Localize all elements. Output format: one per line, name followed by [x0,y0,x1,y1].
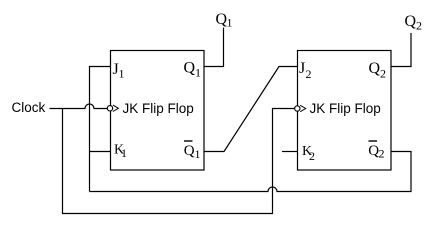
wire K2 stub [282,151,298,153]
svg-text:2: 2 [416,19,422,33]
svg-text:1: 1 [227,16,233,30]
wire Q1-bar to J2 (diagonal) [204,67,298,152]
svg-text:1: 1 [195,147,201,161]
svg-text:2: 2 [309,149,315,163]
svg-text:1: 1 [121,146,127,160]
JK flip-flop U2 box [298,51,392,171]
JK flip-flop U1 box [111,51,205,171]
wire Q2 output up to label [391,33,411,67]
wire J1 input tie from box to vertical x=89.5 down to feedback row [90,67,111,192]
overbar of Q2-bar [369,140,378,142]
U2 clock bubble [295,106,300,111]
svg-text:2: 2 [380,67,386,81]
svg-text:1: 1 [119,67,125,81]
svg-text:Q: Q [184,143,195,159]
U1 clock bubble [107,106,112,111]
wire Q1 output up to label [204,28,224,67]
U2 clock edge triangle [300,105,306,111]
svg-text:JK Flip Flop: JK Flip Flop [310,101,381,116]
wire clock branch down, along bottom, up to U2 CLK [63,109,295,214]
wire feedback Q2-bar to J1/K1 (hop over clock vertical at x=272.5) [90,152,412,192]
svg-text:2: 2 [379,147,385,161]
svg-text:1: 1 [195,66,201,80]
svg-text:Clock: Clock [12,100,46,115]
svg-text:Q: Q [405,13,417,30]
svg-text:Q: Q [184,60,196,77]
overbar of Q1-bar [184,140,193,142]
svg-text:JK Flip Flop: JK Flip Flop [123,101,194,116]
svg-text:2: 2 [306,67,312,81]
wire K1 branch [90,151,111,153]
svg-text:J: J [299,60,305,77]
wire clock input to U1 CLK (hop over J1K1 tie at x=89.5) [50,104,108,109]
svg-text:Q: Q [369,60,381,77]
U1 clock edge triangle [113,105,119,111]
